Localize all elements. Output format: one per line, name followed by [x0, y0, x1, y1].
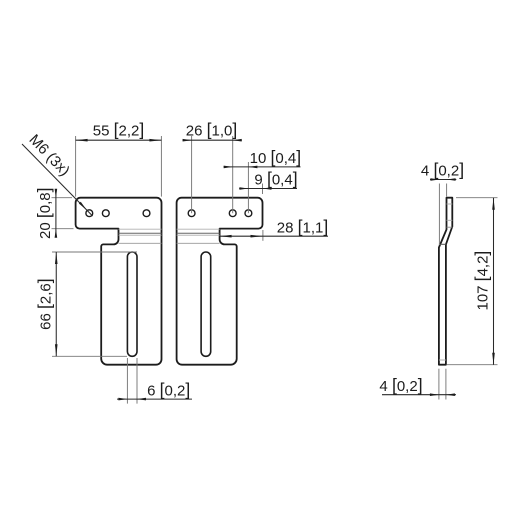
left bracket bend line (middle dark)	[119, 232, 162, 234]
dim 28 arrows	[220, 235, 232, 238]
right bracket hole 2	[229, 210, 236, 217]
dim 9 arrows	[239, 187, 248, 190]
svg-text:4 [0,2]: 4 [0,2]	[379, 375, 422, 395]
right bracket hole 3	[245, 210, 252, 217]
dim 9 line	[239, 188, 297, 190]
dim 6 arrows	[118, 398, 127, 401]
dim 4 top extension lines	[438, 184, 440, 246]
right bracket outline	[177, 198, 263, 365]
dim 26 line	[183, 139, 242, 141]
dim 10 arrows	[224, 166, 233, 169]
svg-text:55 [2,2]: 55 [2,2]	[93, 119, 145, 139]
svg-text:66 [2,6]: 66 [2,6]	[35, 278, 55, 330]
dim 28 line	[220, 235, 328, 237]
dim 20 extension lines	[52, 197, 73, 199]
dim 4 top arrows	[430, 178, 439, 181]
svg-text:10 [0,4]: 10 [0,4]	[250, 147, 302, 167]
dim 6 extension lines	[126, 358, 128, 404]
left bracket hole 2	[102, 210, 109, 217]
dim 6 line	[117, 398, 192, 400]
right bracket bend line (top tangent)	[177, 228, 220, 230]
svg-text:20 [0,8]: 20 [0,8]	[34, 187, 54, 239]
dim 66 extension lines	[52, 251, 137, 253]
dim 107 line	[493, 198, 495, 365]
dim 66 arrows	[55, 252, 58, 264]
left bracket hole 3	[143, 210, 150, 217]
side view faint line a	[447, 203, 453, 205]
dim 20 arrows	[55, 189, 58, 198]
svg-text:6 [0,2]: 6 [0,2]	[147, 380, 190, 400]
dim 107 arrows	[492, 198, 495, 210]
svg-text:4 [0,2]: 4 [0,2]	[421, 160, 464, 180]
dim 55 arrows	[76, 139, 88, 142]
dim 107 extension lines	[456, 197, 498, 199]
dim 55 line	[76, 139, 162, 141]
right bracket bend line (thin)	[177, 234, 220, 236]
dim 10 extension line	[247, 162, 249, 213]
svg-text:26 [1,0]: 26 [1,0]	[186, 119, 238, 139]
left bracket hole 1	[86, 210, 93, 217]
side view faint line b	[447, 219, 453, 221]
right bracket bend line (lower tangent)	[177, 242, 220, 244]
dim 4 bottom line	[382, 394, 456, 396]
side view outline	[439, 198, 452, 365]
right bracket hole 1	[188, 210, 195, 217]
left bracket bend line (thin)	[119, 234, 162, 236]
side view bend tangent upper	[447, 226, 453, 228]
svg-text:9 [0,4]: 9 [0,4]	[254, 169, 297, 189]
dim 20 line	[55, 190, 57, 236]
M6 leader arrowhead	[79, 202, 87, 210]
side view faint line c	[439, 359, 446, 361]
dim 55 extension lines	[75, 136, 77, 197]
right bracket slot	[201, 252, 211, 356]
dim 4 bottom arrows	[430, 393, 439, 396]
left bracket outline	[76, 198, 162, 365]
left bracket bend line (top tangent)	[119, 228, 162, 230]
dim 9 extension line	[262, 184, 264, 195]
dim 26 arrows	[183, 139, 192, 142]
M6 leader line	[22, 144, 93, 216]
dim 66 line	[55, 252, 57, 356]
svg-text:107 [4,2]: 107 [4,2]	[472, 251, 492, 311]
side view bend tangent lower	[439, 243, 446, 245]
dim 28 extension line	[262, 230, 264, 241]
left bracket slot	[127, 252, 137, 356]
right bracket bend line (middle dark)	[177, 232, 220, 234]
dim 26 extension lines	[191, 136, 193, 213]
svg-text:28 [1,1]: 28 [1,1]	[277, 217, 329, 237]
dim 4 top line	[430, 179, 456, 181]
dim 10 line	[224, 166, 301, 168]
dim 4 bottom extension lines	[438, 369, 440, 400]
left bracket bend line (lower tangent)	[119, 242, 162, 244]
